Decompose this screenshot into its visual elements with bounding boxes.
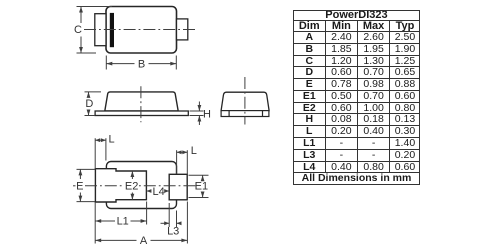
top view left terminal tab <box>95 14 106 46</box>
dimension L (top-right) <box>177 151 188 153</box>
dimension C top extension line <box>77 6 113 8</box>
dimension A right extension line <box>186 202 188 244</box>
bottom view small cathode pad <box>169 174 187 200</box>
dimension L left extension line (top-right) <box>176 150 178 174</box>
top view right terminal tab <box>177 19 188 40</box>
svg-text:L: L <box>108 133 114 145</box>
svg-text:D: D <box>85 98 93 110</box>
dimension E bottom extension line <box>77 201 96 203</box>
dimension L3 <box>161 222 170 224</box>
top view package body outline <box>106 7 177 54</box>
dimension L1 right extension line <box>146 202 148 225</box>
dimension L (top-left) <box>95 139 106 141</box>
dimension L right extension line (top-right) <box>186 150 188 174</box>
cathode band <box>110 13 114 47</box>
dimension L left extension line (top-left) <box>94 138 96 169</box>
svg-text:L1: L1 <box>117 216 129 228</box>
bottom view large anode pad <box>95 169 146 202</box>
dimension D bottom extension line <box>85 115 96 117</box>
svg-text:L: L <box>191 145 197 157</box>
svg-text:E: E <box>76 180 83 192</box>
dimension E1 <box>202 175 204 179</box>
dimension L4 <box>146 190 151 192</box>
dimension E top extension line <box>77 168 96 170</box>
top view horizontal centerline <box>84 29 196 31</box>
dimension L1 <box>95 220 115 222</box>
svg-text:A: A <box>140 235 148 247</box>
dimension E <box>79 169 81 179</box>
end view left tab edge <box>228 111 230 117</box>
dimension D <box>88 92 90 97</box>
side view molded body <box>105 92 178 111</box>
dimension H top extension line <box>190 110 204 112</box>
side view base lead-frame slab <box>95 111 188 116</box>
dimension E2 <box>131 171 133 179</box>
dimension table <box>293 10 421 185</box>
bottom view horizontal centerline <box>73 185 76 187</box>
dimension E1 top extension line <box>189 174 209 176</box>
dimension C <box>80 7 82 24</box>
dimension A left extension line <box>94 202 96 244</box>
bottom view package outline <box>106 162 176 209</box>
end view molded body <box>221 92 269 110</box>
dimension A <box>95 239 136 241</box>
svg-text:H: H <box>203 108 211 120</box>
dimension H <box>198 102 200 112</box>
dimension E1 bottom extension line <box>189 197 209 199</box>
end view base slab <box>221 111 269 117</box>
svg-text:C: C <box>74 24 82 36</box>
svg-text:L4: L4 <box>152 186 164 198</box>
svg-text:L3: L3 <box>167 225 179 237</box>
dimension L3 left extension line <box>168 203 170 227</box>
svg-text:E2: E2 <box>125 180 138 192</box>
side view vertical centerline <box>140 86 142 122</box>
dimension C bottom extension line <box>77 52 97 54</box>
dimension L right extension line (top-left) <box>105 138 107 160</box>
dimension B right extension line <box>175 56 177 70</box>
svg-text:E1: E1 <box>195 180 208 192</box>
dimension B <box>106 63 134 65</box>
end view right tab edge <box>262 111 264 117</box>
svg-text:B: B <box>138 58 145 70</box>
dimension B left extension line <box>105 56 107 70</box>
dimension L3 right extension line <box>176 211 178 228</box>
end view vertical centerline <box>244 77 246 125</box>
dimension D top extension line <box>85 91 102 93</box>
dimension H bottom extension line <box>190 115 204 117</box>
